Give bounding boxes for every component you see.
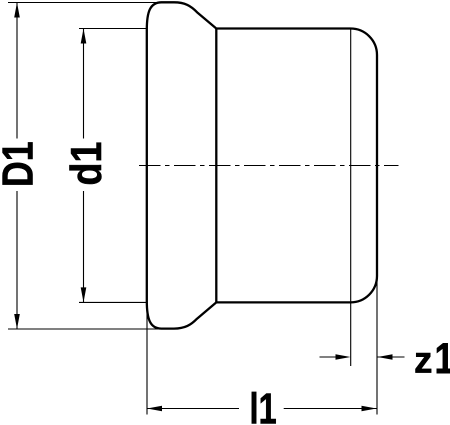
dimension D1 arrow up — [14, 3, 20, 18]
dimension D1 line upper segment — [16, 3, 18, 139]
label d1 — [69, 143, 101, 184]
label D1 — [3, 142, 33, 184]
dimension l1 extension line left — [146, 302, 148, 415]
socket inner edge line — [215, 29, 217, 303]
cap outline — [147, 2, 377, 328]
centerline — [139, 165, 399, 167]
dimension z1 left line — [320, 356, 337, 358]
dimension z1 left arrow — [336, 354, 351, 360]
dimension D1 line lower segment — [16, 191, 18, 329]
label l1 — [252, 392, 276, 424]
dimension l1 line right segment — [284, 408, 377, 410]
dimension l1 arrow right — [362, 406, 377, 412]
dimension d1 line lower segment — [83, 191, 85, 302]
dimension d1 extension line top — [79, 28, 146, 30]
dimension z1 extension line — [350, 29, 352, 367]
dimension l1 extension line right — [376, 280, 378, 415]
dimension D1 extension line bottom — [8, 328, 163, 330]
dimension d1 extension line bottom — [79, 301, 146, 303]
dimension D1 arrow down — [14, 314, 20, 329]
label z1 — [415, 353, 431, 373]
dimension D1 extension line top — [8, 2, 163, 4]
dimension z1 right arrow — [378, 354, 393, 360]
dimension d1 arrow up — [81, 29, 87, 44]
dimension d1 arrow down — [81, 287, 87, 302]
dimension l1 arrow left — [147, 406, 162, 412]
dimension d1 line upper segment — [83, 29, 85, 139]
dimension z1 right line — [378, 356, 405, 358]
dimension l1 line left segment — [147, 408, 239, 410]
